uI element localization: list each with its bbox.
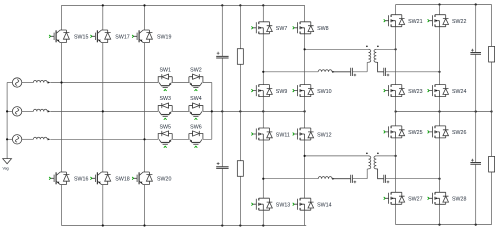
svg-text:SW18: SW18 xyxy=(115,177,129,183)
svg-text:SW9: SW9 xyxy=(276,89,288,95)
svg-text:SW25: SW25 xyxy=(408,130,422,136)
svg-text:SW10: SW10 xyxy=(317,89,331,95)
svg-text:SW7: SW7 xyxy=(276,26,288,32)
svg-text:SW3: SW3 xyxy=(159,96,171,102)
svg-text:Vag: Vag xyxy=(3,167,9,171)
svg-text:SW17: SW17 xyxy=(115,35,129,41)
svg-text:SW12: SW12 xyxy=(317,132,331,138)
svg-text:SW24: SW24 xyxy=(452,89,466,95)
svg-text:SW4: SW4 xyxy=(190,96,202,102)
svg-text:SW19: SW19 xyxy=(157,35,171,41)
svg-text:SW13: SW13 xyxy=(276,203,290,209)
svg-text:SW22: SW22 xyxy=(452,19,466,25)
svg-text:SW14: SW14 xyxy=(317,203,331,209)
svg-text:SW21: SW21 xyxy=(408,19,422,25)
svg-text:SW28: SW28 xyxy=(452,197,466,203)
svg-text:SW15: SW15 xyxy=(74,35,88,41)
svg-text:SW8: SW8 xyxy=(317,26,329,32)
svg-text:SW5: SW5 xyxy=(159,124,171,130)
svg-text:SW6: SW6 xyxy=(190,124,202,130)
svg-text:SW23: SW23 xyxy=(408,89,422,95)
svg-text:SW2: SW2 xyxy=(190,68,202,74)
svg-text:SW16: SW16 xyxy=(74,177,88,183)
svg-text:SW26: SW26 xyxy=(452,130,466,136)
svg-text:SW20: SW20 xyxy=(157,177,171,183)
svg-text:SW11: SW11 xyxy=(276,132,290,138)
svg-text:SW1: SW1 xyxy=(159,68,171,74)
svg-text:SW27: SW27 xyxy=(408,197,422,203)
